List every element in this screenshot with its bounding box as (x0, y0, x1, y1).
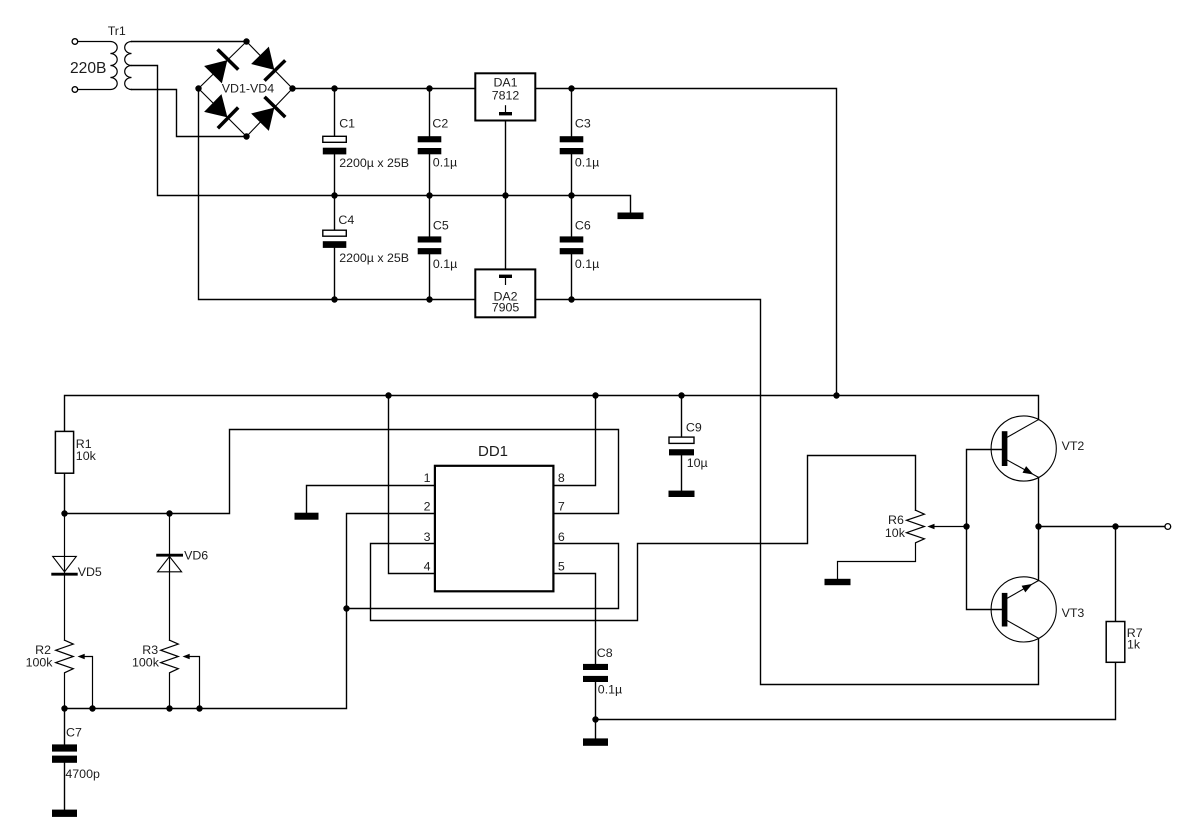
svg-text:3: 3 (424, 530, 431, 544)
terminal 220V top (72, 39, 78, 45)
capacitor C7 (52, 709, 77, 810)
svg-text:C1: C1 (339, 117, 355, 131)
svg-text:C2: C2 (432, 117, 448, 131)
diode VD2 top-right (251, 46, 284, 79)
svg-text:1k: 1k (1127, 638, 1141, 652)
svg-text:10k: 10k (885, 526, 906, 540)
wire base link VT2-VT3 (967, 450, 1003, 610)
svg-text:R6: R6 (888, 513, 904, 527)
svg-text:1: 1 (424, 471, 431, 485)
regulator DA1 7812 (475, 73, 535, 120)
wire +12V rail (65, 396, 1039, 432)
svg-text:220В: 220В (70, 60, 106, 77)
potentiometer R2 (56, 640, 93, 708)
ground bar pin1 (295, 513, 319, 520)
wire VT3 emitter to output (1038, 527, 1040, 581)
wire pin 8 to +12V (553, 396, 595, 486)
svg-text:VD5: VD5 (78, 565, 102, 579)
svg-text:VD6: VD6 (184, 549, 208, 563)
svg-text:0.1µ: 0.1µ (575, 257, 599, 271)
svg-text:Tr1: Tr1 (108, 24, 126, 38)
svg-text:7905: 7905 (492, 300, 520, 314)
diode bridge diamond (199, 42, 293, 137)
transformer Tr1 secondary winding (125, 42, 132, 90)
svg-text:2200µ x 25В: 2200µ x 25В (339, 251, 409, 265)
svg-text:10k: 10k (76, 449, 97, 463)
svg-text:C3: C3 (575, 117, 591, 131)
svg-text:7812: 7812 (492, 89, 520, 103)
wire pin 1 to ground (307, 486, 435, 513)
svg-text:DA1: DA1 (493, 76, 517, 90)
wire pin 2 net to bottom rail (65, 514, 435, 709)
wire DA1 common (505, 121, 507, 196)
capacitor C8 (583, 664, 608, 739)
svg-text:4: 4 (424, 559, 431, 573)
ground bar middle rail (618, 213, 644, 220)
capacitor C4 (323, 196, 347, 300)
potentiometer R3 (161, 640, 200, 708)
wire secondary tap to middle rail and ground (132, 66, 631, 213)
transformer Tr1 primary winding (78, 42, 117, 90)
potentiometer R6 (838, 510, 967, 579)
svg-text:C8: C8 (597, 646, 613, 660)
svg-text:5: 5 (558, 559, 565, 573)
capacitor C5 (418, 196, 442, 300)
svg-text:VD1-VD4: VD1-VD4 (222, 81, 274, 95)
svg-text:0.1µ: 0.1µ (433, 257, 457, 271)
svg-text:2: 2 (424, 500, 431, 514)
wire DA2 common (505, 196, 507, 270)
svg-text:C4: C4 (338, 213, 354, 227)
svg-text:C7: C7 (66, 726, 82, 740)
terminal output (1165, 524, 1171, 530)
wire negative rail from DA2 to VT3 collector (535, 300, 1038, 685)
ground bar C8 (583, 738, 608, 745)
diode VD1 top-left (204, 51, 237, 84)
ground bar R6 (825, 579, 851, 585)
svg-text:VT2: VT2 (1062, 439, 1085, 453)
resistor R1 (55, 431, 73, 513)
wire secondary top to bridge (132, 41, 247, 43)
svg-text:100k: 100k (132, 656, 160, 670)
svg-text:10µ: 10µ (687, 456, 708, 470)
svg-text:DD1: DD1 (478, 443, 508, 460)
wire pin 4 to +12V (389, 396, 435, 574)
svg-text:0.1µ: 0.1µ (575, 156, 599, 170)
capacitor C3 (560, 89, 584, 196)
wire pin 5 to C8 (553, 574, 595, 664)
wire pin 7 to R1 bottom node (65, 430, 619, 514)
transistor VT2 (991, 416, 1056, 481)
svg-text:C6: C6 (575, 219, 591, 233)
svg-text:8: 8 (558, 471, 565, 485)
wire C8 node to R7 bottom (596, 662, 1116, 719)
svg-text:C5: C5 (433, 219, 449, 233)
diode VD3 bottom-left (204, 94, 237, 127)
svg-text:VT3: VT3 (1062, 606, 1085, 620)
wire pin 6 to pin 2 net (347, 544, 619, 609)
svg-text:0.1µ: 0.1µ (598, 682, 622, 696)
diode VD6 (158, 514, 182, 641)
capacitor C6 (560, 196, 584, 300)
diode VD5 (53, 514, 77, 641)
capacitor C2 (418, 89, 442, 196)
wire DA1 output to +12V rail (535, 89, 836, 396)
wire bridge left node down to negative rail (199, 89, 476, 300)
diode VD4 bottom-right (251, 98, 284, 131)
svg-text:0.1µ: 0.1µ (433, 156, 457, 170)
capacitor C9 (669, 396, 694, 491)
transistor VT3 (991, 577, 1056, 642)
wire VT2 emitter to output (1038, 477, 1040, 526)
svg-text:6: 6 (558, 530, 565, 544)
wire pin 3 net to R6 top (371, 456, 916, 621)
IC DD1 box (435, 466, 554, 592)
wire secondary bottom to bridge bottom (132, 90, 247, 137)
svg-text:C9: C9 (686, 421, 702, 435)
wire bridge right node to DA1 (293, 88, 476, 90)
wire output node (1039, 526, 1165, 528)
svg-text:4700p: 4700p (65, 767, 100, 781)
ground bar C7 (52, 810, 77, 817)
svg-text:7: 7 (558, 500, 565, 514)
resistor R7 (1106, 527, 1125, 663)
svg-text:2200µ x 25В: 2200µ x 25В (339, 156, 409, 170)
regulator DA2 7905 (475, 269, 535, 317)
terminal 220V bottom (72, 87, 78, 93)
svg-text:100k: 100k (26, 656, 54, 670)
ground bar C9 (669, 491, 695, 497)
capacitor C1 (323, 89, 347, 196)
